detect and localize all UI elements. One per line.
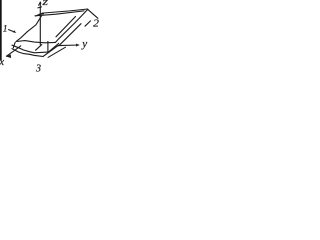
svg-text:x: x: [0, 57, 4, 68]
short stroke left of label 2: [85, 21, 91, 26]
z-axis arrowhead left barb: [39, 2, 41, 5]
svg-text:2: 2: [93, 18, 99, 29]
junction blob at back-left corner: [35, 13, 44, 17]
box front-top edge: [16, 41, 55, 43]
inner diagonal stroke on top face: [56, 17, 76, 37]
lower plate right receding edge from Q: [43, 45, 58, 56]
small stroke above x-axis: [36, 45, 42, 51]
svg-text:z: z: [41, 0, 48, 8]
svg-text:1: 1: [3, 25, 8, 35]
front face left edge: [13, 42, 15, 48]
x-axis arrowhead: [6, 54, 11, 58]
pointer from label 1: [9, 30, 14, 32]
svg-text:y: y: [81, 38, 87, 50]
pointer from corner to label 2: [88, 9, 98, 18]
box back-top edge lower stroke: [35, 11, 84, 16]
lower plate top edge P: [12, 45, 48, 53]
receding edge from front-right corner: [48, 43, 58, 52]
svg-text:3: 3: [35, 63, 41, 72]
border bar left: [0, 0, 2, 60]
y-axis line: [59, 44, 79, 47]
z-axis arrowhead right barb: [39, 2, 42, 3]
box top-left edge: [16, 16, 41, 42]
box top-right edge: [56, 10, 88, 43]
x-axis: [6, 46, 20, 56]
box back-top edge upper stroke: [42, 9, 88, 13]
y-axis arrowhead: [76, 44, 79, 47]
bottom-right receding edge: [59, 24, 81, 46]
extra receding stroke lower: [48, 47, 66, 57]
z-axis: [39, 2, 41, 45]
z-axis tick: [38, 7, 42, 8]
label-1 pointer arrowhead: [13, 30, 16, 33]
front face right vertical edge: [47, 42, 49, 53]
lower plate bottom edge Q: [12, 49, 43, 57]
